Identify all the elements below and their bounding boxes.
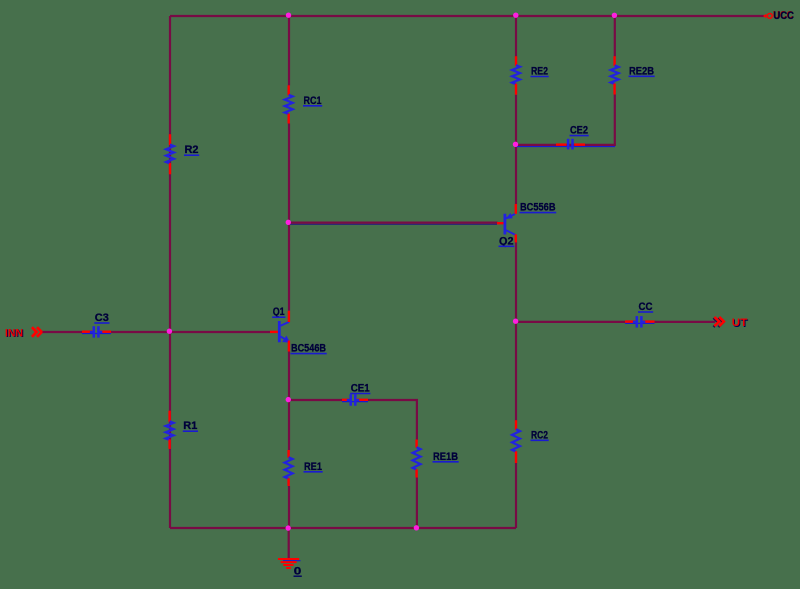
wire left rail <box>169 16 171 528</box>
label UCC <box>773 10 794 23</box>
wire RC1 top <box>288 16 290 86</box>
wire Q1 emitter down <box>288 351 290 450</box>
wire CE2 node to Q2 emitter <box>515 145 517 205</box>
resistor R2 body <box>166 134 174 174</box>
label CE2 <box>570 125 589 137</box>
node junction Q1 emitter <box>286 397 291 402</box>
wire RE2 top <box>515 16 517 57</box>
node junction top RC1 <box>286 13 291 18</box>
wire Q2 collector to output node <box>515 242 517 322</box>
wire output node to RC2 <box>515 322 517 421</box>
wire C3 to Q1 base <box>111 331 270 333</box>
wire emitter node to CE1 <box>289 399 343 401</box>
wire RE2 to CE2 node <box>515 95 517 145</box>
pin Q2 base red <box>497 222 504 224</box>
resistor RC1 body <box>285 85 293 123</box>
capacitor CC <box>625 316 655 328</box>
wire RE2B top <box>614 16 616 57</box>
label RE2B <box>629 65 655 77</box>
port UT output arrow <box>714 317 724 327</box>
node junction output <box>513 319 518 324</box>
transistor Q1 BC546B <box>279 311 290 352</box>
label UT <box>732 317 749 330</box>
svg-text:INN: INN <box>5 327 23 339</box>
wire top VCC rail <box>170 15 764 17</box>
label BC546B Q1 <box>291 343 327 355</box>
node junction ground RE1B <box>414 525 419 530</box>
label RC2 <box>531 429 549 441</box>
resistor RC2 body <box>512 420 520 463</box>
wire CE2 row <box>516 144 615 146</box>
capacitor C3 <box>82 326 111 338</box>
wire CE1 to RE1B branch corner <box>368 399 418 401</box>
wire bottom ground rail <box>170 527 516 529</box>
wire Q1 collector to Q2 base <box>289 222 498 224</box>
label RC1 <box>303 95 322 107</box>
label RE1 <box>304 461 323 473</box>
transistor Q2 BC556B <box>505 204 516 242</box>
wire RE1 to ground rail <box>288 486 290 528</box>
label CE1 <box>350 383 370 395</box>
wire CE2 row blue underlay <box>516 146 615 148</box>
svg-text:UT: UT <box>732 317 748 329</box>
power terminal UCC <box>763 14 772 19</box>
node junction input divider <box>167 329 172 334</box>
capacitor CE1 <box>342 394 368 406</box>
label BC556B Q2 <box>520 202 557 214</box>
resistor RE1 body <box>285 450 293 486</box>
pin Q1 base red <box>270 331 279 333</box>
resistor RE1B body <box>413 440 421 478</box>
node junction Q1 collector <box>286 220 291 225</box>
wire RE1B to ground rail <box>416 478 418 529</box>
label C3 <box>94 312 109 324</box>
wire CC to UT port <box>655 321 716 323</box>
wire Q2 base blue underlay <box>290 223 497 225</box>
node junction top RE2B <box>612 13 617 18</box>
wire RE1B branch down <box>416 399 418 440</box>
wire ground stem <box>288 528 290 559</box>
wire RC2 to ground rail <box>515 463 517 528</box>
label Q1 <box>272 306 285 318</box>
capacitor CE2 <box>556 139 585 150</box>
label RE2 <box>531 66 549 78</box>
node junction top RE2 <box>513 13 518 18</box>
wire INN to C3 <box>43 331 83 333</box>
svg-text:UCC: UCC <box>774 10 795 22</box>
label Q2 <box>499 235 515 247</box>
label RE1B <box>433 451 459 463</box>
node junction ground RE1 <box>286 525 291 530</box>
wire output node to CC <box>516 321 626 323</box>
label CC <box>638 301 653 313</box>
label R1 <box>183 420 198 432</box>
wire RC1 to Q1 collector <box>288 124 290 311</box>
resistor R1 body <box>166 411 174 449</box>
label INN <box>5 327 24 340</box>
wire RE2B down to CE2 row <box>614 95 616 147</box>
label 0 ground net <box>294 565 302 577</box>
node junction CE2 RE2 <box>513 142 518 147</box>
ground symbol <box>278 559 301 568</box>
label R2 <box>184 144 199 156</box>
port INN input arrow <box>32 327 42 337</box>
resistor RE2B body <box>611 56 619 94</box>
resistor RE2 body <box>512 56 520 95</box>
